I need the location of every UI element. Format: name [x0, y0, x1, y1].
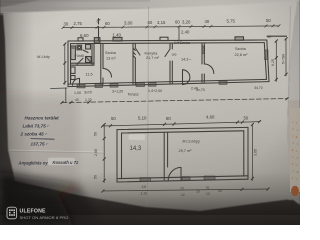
- svg-text:ULEFONE: ULEFONE: [20, 209, 47, 215]
- svg-text:SHOT ON ARMOR 8 PRO: SHOT ON ARMOR 8 PRO: [20, 215, 69, 220]
